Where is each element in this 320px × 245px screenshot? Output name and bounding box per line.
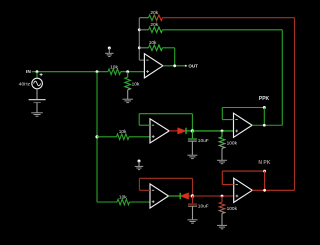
junction bottom 100k	[221, 195, 224, 198]
wire mid node to 100k	[192, 130, 233, 132]
wire DC source to ground	[36, 103, 38, 113]
wire 20k1 left lead	[139, 17, 148, 19]
wire series resistor to opamp	[121, 71, 145, 73]
wire source bottom lead	[36, 89, 38, 100]
plus polarity mark of source	[40, 74, 43, 76]
wire resistor to ground	[127, 90, 129, 99]
svg-text:10k: 10k	[149, 40, 157, 46]
svg-text:IN: IN	[26, 69, 31, 75]
svg-text:10uF: 10uF	[198, 138, 209, 144]
floating ground near U2	[138, 160, 141, 163]
wire divider node to resistor	[127, 72, 129, 78]
diode D1 (positive peak)	[178, 128, 186, 134]
terminal OUT post	[185, 65, 187, 67]
wire U2 fb top	[139, 113, 192, 115]
wire U5 output	[252, 189, 294, 191]
wire bottom branch	[97, 201, 117, 203]
op-amp U4	[234, 113, 253, 137]
junction fb tap	[173, 64, 176, 67]
floating ground near U1	[108, 47, 111, 50]
wire bottom resistor to U3	[130, 201, 151, 203]
wire 10k fb right	[162, 47, 174, 49]
wire diode to node	[186, 130, 192, 132]
wire stub to U1 inverting input	[139, 59, 144, 61]
wire U4 fb right vertical	[263, 108, 265, 126]
ground below 10k divider	[122, 98, 133, 100]
DC source V2 long plate	[29, 99, 46, 101]
junction PPK node	[263, 106, 266, 109]
wire U3 fb left vertical	[138, 178, 140, 190]
svg-text:100k: 100k	[227, 140, 238, 146]
junction NPK node	[263, 170, 266, 173]
wire 20k2 to green vertical	[162, 29, 282, 31]
junction 10k fb row	[138, 46, 141, 49]
resistor 100k bottom stem	[221, 196, 223, 202]
wire U3 fb right vertical	[192, 178, 194, 196]
junction mid node	[191, 129, 194, 132]
DC source V2 short plate	[33, 102, 40, 104]
resistor 10k series (input)	[108, 69, 121, 75]
op-amp U3	[150, 184, 169, 208]
resistor 10k to ground	[125, 77, 131, 90]
wire IN to series resistor	[32, 71, 108, 73]
svg-text:10k: 10k	[110, 64, 118, 70]
wire fb tap vertical	[174, 48, 176, 66]
op-amp U1	[144, 54, 163, 78]
wire U2 output red	[169, 130, 177, 132]
ground below C2	[188, 219, 198, 221]
svg-text:10k: 10k	[119, 129, 127, 135]
wire U4 fb top	[222, 107, 264, 109]
junction bottom node	[191, 194, 194, 197]
wire U5 fb top	[222, 170, 264, 172]
svg-text:40Hz: 40Hz	[19, 82, 31, 88]
ground below source	[31, 112, 43, 114]
wire mid resistor to U2	[129, 136, 150, 138]
diode D2 (negative peak)	[180, 193, 188, 199]
junction divider node	[126, 70, 129, 73]
svg-text:10uF: 10uF	[198, 203, 209, 209]
resistor 10k bottom series	[117, 199, 130, 205]
junction U5 output	[263, 189, 266, 192]
junction 20k2 row	[138, 28, 141, 31]
wire U5 fb stub	[222, 184, 233, 186]
wire U4 fb stub	[222, 119, 233, 121]
wire diode to bottom node	[189, 195, 193, 197]
junction source top	[36, 70, 39, 73]
capacitor C2 10uF	[188, 203, 197, 205]
wire mid branch	[97, 136, 117, 138]
ground below 100k mid	[217, 159, 227, 161]
svg-text:10k: 10k	[119, 194, 127, 200]
resistor 100k mid	[219, 137, 225, 149]
junction input column	[96, 70, 99, 73]
wire C1 to ground	[191, 141, 193, 155]
wire U3 fb top	[139, 177, 192, 179]
resistor 20k #2	[149, 27, 163, 33]
wire U2 fb stub	[139, 124, 150, 126]
op-amp U5	[234, 178, 253, 202]
resistor 100k mid stem	[221, 131, 223, 137]
wire U4 output	[252, 124, 282, 126]
junction mid 100k	[221, 130, 224, 133]
wire 100k bottom to ground	[221, 214, 223, 226]
wire bottom node to 100k	[193, 195, 234, 197]
wire U2 fb left vertical	[138, 114, 140, 126]
ground below 100k bottom	[217, 224, 227, 226]
svg-text:N PK: N PK	[258, 160, 270, 166]
wire 100k mid to ground	[221, 148, 223, 160]
wire U2 fb right vertical	[191, 114, 193, 131]
wire summing node vertical	[138, 18, 140, 60]
wire red right vertical	[294, 18, 296, 191]
resistor 10k mid series	[117, 134, 130, 140]
op-amp U2	[150, 119, 169, 143]
wire C2 to ground	[192, 206, 194, 219]
wire U4 fb left vertical	[221, 108, 223, 120]
AC source V1 40Hz	[32, 78, 43, 89]
capacitor C1 10uF	[188, 138, 197, 140]
wire green right vertical	[281, 30, 283, 125]
wire U5 fb left vertical	[221, 171, 223, 185]
resistor 100k bottom	[219, 202, 225, 213]
wire U5 fb right vertical	[264, 171, 266, 190]
wire U1 output	[163, 65, 186, 67]
capacitor C2 10uF stem	[192, 196, 194, 203]
svg-text:20k: 20k	[150, 22, 158, 28]
wire 20k2 left lead	[139, 29, 148, 31]
capacitor C1 10uF stem	[191, 131, 193, 138]
ground below C1	[187, 154, 197, 156]
resistor 10k feedback	[149, 45, 163, 51]
svg-text:100k: 100k	[227, 206, 238, 212]
wire source top lead	[36, 72, 38, 79]
junction mid branch	[95, 135, 98, 138]
wire U3 output green	[169, 195, 181, 197]
wire 20k1 to red vertical	[162, 17, 294, 19]
svg-text:PPK: PPK	[259, 96, 270, 102]
wire 10k fb left lead	[139, 47, 148, 49]
svg-text:OUT: OUT	[188, 63, 198, 68]
wire input column down	[96, 72, 98, 202]
svg-text:20k: 20k	[150, 10, 158, 16]
junction U4 output	[263, 124, 266, 127]
svg-text:10k: 10k	[132, 81, 140, 87]
resistor 20k #1	[149, 15, 163, 21]
wire U3 fb stub	[139, 189, 150, 191]
